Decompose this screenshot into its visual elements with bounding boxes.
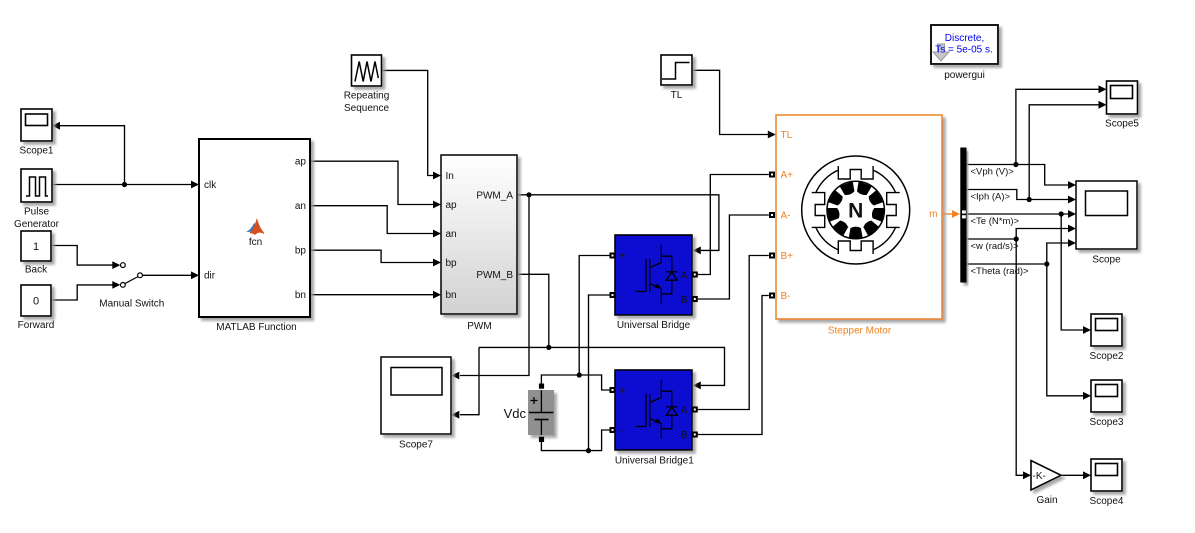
icon Stepper Motor stator and rotor bbox=[802, 156, 910, 264]
svg-text:Universal Bridge1: Universal Bridge1 bbox=[615, 456, 694, 467]
wire Gain to Scope4 bbox=[1061, 471, 1091, 479]
svg-text:Ts = 5e-05 s.: Ts = 5e-05 s. bbox=[935, 45, 993, 56]
svg-text:clk: clk bbox=[204, 180, 217, 191]
icon MATLAB fcn logo bbox=[248, 220, 265, 248]
svg-text:m: m bbox=[929, 209, 937, 220]
block Forward constant 0 bbox=[18, 285, 55, 331]
block Pulse Generator bbox=[14, 169, 60, 230]
wire Repeating Sequence to PWM In bbox=[382, 70, 442, 179]
svg-text:PWM_B: PWM_B bbox=[476, 270, 513, 281]
block Scope1 bbox=[20, 109, 54, 157]
svg-text:Repeating: Repeating bbox=[344, 91, 390, 102]
wire Pulse Generator to MATLAB clk with branch to Scope1 bbox=[52, 122, 199, 189]
svg-text:TL: TL bbox=[781, 130, 793, 141]
svg-text:an: an bbox=[446, 229, 457, 240]
wire MATLAB ap to PWM ap bbox=[310, 161, 441, 208]
svg-text:Sequence: Sequence bbox=[344, 103, 389, 114]
svg-text:Universal Bridge: Universal Bridge bbox=[617, 320, 691, 331]
block Scope bbox=[1076, 181, 1137, 266]
svg-text:-: - bbox=[620, 291, 623, 302]
block Vdc DC voltage source bbox=[504, 384, 554, 443]
svg-text:Scope1: Scope1 bbox=[20, 146, 54, 157]
svg-text:A: A bbox=[681, 405, 688, 416]
wire Vdc plus rail to bridges bbox=[541, 256, 609, 391]
svg-text:<Iph (A)>: <Iph (A)> bbox=[971, 192, 1011, 203]
svg-text:powergui: powergui bbox=[944, 70, 985, 81]
wire bus Theta to Scope in5 and Scope3 bbox=[967, 239, 1092, 400]
wire Back to Manual Switch upper input bbox=[51, 246, 120, 270]
block PWM subsystem bbox=[441, 155, 517, 332]
wire Stepper m to Bus Selector (orange) bbox=[942, 210, 960, 218]
svg-text:bp: bp bbox=[446, 258, 458, 269]
svg-text:Forward: Forward bbox=[18, 320, 55, 331]
block Scope2 bbox=[1090, 314, 1124, 362]
wire Universal Bridge1 B to Stepper B- bbox=[698, 296, 769, 435]
icon Universal Bridge1 IGBT and diode bbox=[636, 380, 678, 439]
wire bus Te to Scope in3 and Scope2 bbox=[967, 210, 1092, 334]
block Manual Switch bbox=[99, 263, 164, 310]
svg-text:B-: B- bbox=[781, 291, 791, 302]
svg-text:bn: bn bbox=[295, 290, 306, 301]
wire Universal Bridge B to Stepper A- bbox=[698, 215, 769, 299]
block Universal Bridge bbox=[615, 235, 692, 331]
svg-text:Scope5: Scope5 bbox=[1105, 119, 1139, 130]
svg-text:Scope: Scope bbox=[1092, 255, 1121, 266]
wire Universal Bridge1 A to Stepper B+ bbox=[698, 256, 769, 410]
wire bus w to Scope in4 and Gain bbox=[967, 225, 1077, 480]
wire PWM_A to Universal Bridge gate and Scope7 in1 bbox=[451, 192, 719, 379]
svg-text:PWM_A: PWM_A bbox=[476, 190, 513, 201]
svg-text:TL: TL bbox=[671, 90, 683, 101]
port squares Stepper Motor bbox=[769, 172, 775, 299]
svg-text:A+: A+ bbox=[781, 170, 794, 181]
wire bus Vph to Scope in1 and Scope5 in1 bbox=[967, 85, 1107, 188]
wire Universal Bridge A to Stepper A+ bbox=[698, 175, 769, 275]
svg-text:A-: A- bbox=[781, 211, 791, 222]
svg-text:-: - bbox=[620, 426, 623, 437]
svg-text:MATLAB Function: MATLAB Function bbox=[216, 322, 296, 333]
block Repeating Sequence bbox=[344, 55, 390, 114]
block powergui bbox=[931, 25, 998, 81]
svg-text:Scope2: Scope2 bbox=[1090, 351, 1124, 362]
wire Vdc minus rail to bridges bbox=[541, 295, 609, 453]
icon Universal Bridge IGBT and diode bbox=[636, 245, 678, 304]
block TL step source bbox=[661, 55, 692, 101]
svg-text:<Theta (rad)>: <Theta (rad)> bbox=[971, 266, 1030, 277]
wire MATLAB bp to PWM bp bbox=[310, 250, 441, 266]
svg-text:+: + bbox=[620, 386, 626, 397]
port squares Universal Bridge bbox=[610, 253, 698, 303]
svg-text:bn: bn bbox=[446, 290, 457, 301]
wire MATLAB an to PWM an bbox=[310, 206, 441, 238]
svg-text:B: B bbox=[681, 295, 688, 306]
svg-text:PWM: PWM bbox=[467, 321, 491, 332]
svg-text:N: N bbox=[848, 200, 863, 223]
port squares Universal Bridge1 bbox=[610, 387, 698, 438]
wire MATLAB bn to PWM bn bbox=[310, 291, 441, 299]
wire bus Iph to Scope in2 and Scope5 in2 bbox=[967, 101, 1107, 203]
wire TL to Stepper TL input bbox=[692, 70, 776, 138]
svg-text:0: 0 bbox=[33, 296, 39, 308]
svg-text:Scope3: Scope3 bbox=[1090, 417, 1124, 428]
wire Manual Switch to MATLAB dir bbox=[142, 271, 199, 279]
svg-text:ap: ap bbox=[295, 157, 307, 168]
block Scope5 bbox=[1105, 81, 1139, 130]
block Universal Bridge1 bbox=[615, 370, 694, 467]
svg-text:fcn: fcn bbox=[249, 237, 262, 248]
svg-text:In: In bbox=[446, 171, 454, 182]
svg-text:Vdc: Vdc bbox=[504, 406, 527, 421]
block Bus Selector bar bbox=[960, 148, 966, 283]
block Scope4 bbox=[1090, 459, 1124, 507]
svg-text:<w (rad/s)>: <w (rad/s)> bbox=[971, 241, 1019, 252]
block MATLAB Function bbox=[199, 139, 310, 333]
svg-text:Pulse: Pulse bbox=[24, 207, 49, 218]
block Scope7 bbox=[381, 357, 451, 451]
block Gain bbox=[1031, 461, 1061, 507]
svg-text:bp: bp bbox=[295, 246, 307, 257]
svg-text:<Te (N*m)>: <Te (N*m)> bbox=[971, 216, 1020, 227]
svg-text:Manual Switch: Manual Switch bbox=[99, 299, 164, 310]
svg-text:Back: Back bbox=[25, 265, 48, 276]
wire PWM_B to Universal Bridge1 gate and Scope7 in2 bbox=[451, 274, 724, 418]
svg-text:<Vph (V)>: <Vph (V)> bbox=[971, 167, 1015, 178]
svg-text:Generator: Generator bbox=[14, 219, 60, 230]
svg-text:-K-: -K- bbox=[1033, 471, 1046, 482]
svg-text:an: an bbox=[295, 201, 306, 212]
svg-text:+: + bbox=[620, 251, 626, 262]
svg-text:Scope4: Scope4 bbox=[1090, 496, 1124, 507]
svg-text:1: 1 bbox=[33, 241, 39, 253]
svg-text:A: A bbox=[681, 270, 688, 281]
block Back constant 1 bbox=[21, 231, 51, 276]
svg-text:Scope7: Scope7 bbox=[399, 440, 433, 451]
wire Forward to Manual Switch lower input bbox=[51, 281, 120, 300]
svg-text:dir: dir bbox=[204, 271, 216, 282]
svg-text:B: B bbox=[681, 430, 688, 441]
svg-text:B+: B+ bbox=[781, 251, 794, 262]
svg-text:ap: ap bbox=[446, 200, 458, 211]
svg-text:Discrete,: Discrete, bbox=[945, 33, 984, 44]
block Scope3 bbox=[1090, 380, 1124, 428]
svg-text:Stepper Motor: Stepper Motor bbox=[828, 326, 892, 337]
block Stepper Motor bbox=[776, 115, 942, 337]
svg-text:Gain: Gain bbox=[1036, 495, 1057, 506]
